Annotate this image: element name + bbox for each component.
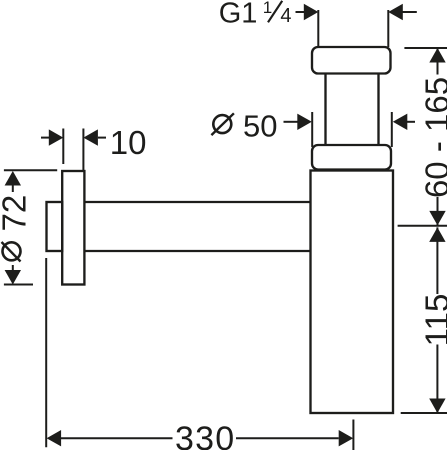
330 right arrowhead [339,430,354,446]
label O72 diameter symbol circle [3,242,21,260]
60-165 top extension line [404,47,447,49]
lower union nut [312,145,391,170]
horizontal pipe top edge [84,201,310,203]
pipe centerline extension line [398,225,447,227]
svg-text:60 - 165: 60 - 165 [418,77,447,198]
115 dimension line upper segment [436,227,438,294]
O50 right extension line [391,112,393,147]
O72 top arrowhead [5,171,21,186]
115 bottom arrowhead [429,399,445,414]
10 right dimension tail [98,137,106,139]
wall pipe stub [47,202,63,251]
svg-text:72: 72 [0,195,33,232]
riser pipe right edge [377,74,379,146]
330 left arrowhead [47,430,62,446]
body bottom extension line [401,412,447,414]
svg-text:330: 330 [175,420,235,450]
G1 1/4 left arrowhead [304,4,319,20]
label O72 diameter symbol slash [2,242,21,262]
label O50 diameter symbol circle [213,115,231,133]
svg-text:115: 115 [418,294,447,347]
60-165 top arrowhead [429,48,445,63]
O72 top extension line [4,169,57,171]
O50 left arrowhead [297,114,312,130]
G1 1/4 left extension line [317,10,319,47]
O50 right arrowhead [393,114,408,130]
O50 left extension line [311,112,313,147]
115 top arrowhead [429,227,445,242]
10 left extension line [62,129,64,165]
svg-text:50: 50 [243,108,277,143]
riser pipe left edge [324,74,326,146]
horizontal pipe bottom edge [84,250,310,252]
G1 1/4 dimension right tail [403,11,417,13]
O72 bottom arrowhead [5,270,21,285]
330 right extension line [352,420,354,450]
G1 1/4 right arrowhead [388,4,403,20]
115 dimension line lower segment [436,345,438,414]
60-165 dimension line lower segment [437,197,439,225]
60-165 bottom arrowhead [429,211,445,226]
330 dimension line right segment [236,437,339,439]
O72 dimension line lower stub [12,265,14,271]
svg-text:1: 1 [263,0,272,17]
330 dimension line left segment [61,437,173,439]
svg-text:4: 4 [280,5,291,27]
10 right extension line [82,129,84,172]
wall line [45,258,47,447]
svg-text:G1: G1 [219,0,258,30]
G1 1/4 right extension line [387,10,389,47]
upper union nut G1 1/4 [312,47,391,74]
wall rosette [62,171,84,285]
10 left arrowhead [49,129,64,145]
10 right arrowhead [83,129,98,145]
siphon body [311,171,394,414]
O72 bottom extension line [4,284,33,286]
10 left dimension tail [41,137,49,139]
G1 1/4 dimension left tail [296,11,305,13]
svg-text:10: 10 [110,124,147,161]
O50 left tail [284,121,299,123]
O72 dimension line upper stub [12,184,14,192]
60-165 dimension line upper segment [437,48,439,75]
O50 right tail [407,121,416,123]
label O50 diameter symbol slash [211,113,234,135]
label G1 1/4 fraction slash [268,1,282,23]
